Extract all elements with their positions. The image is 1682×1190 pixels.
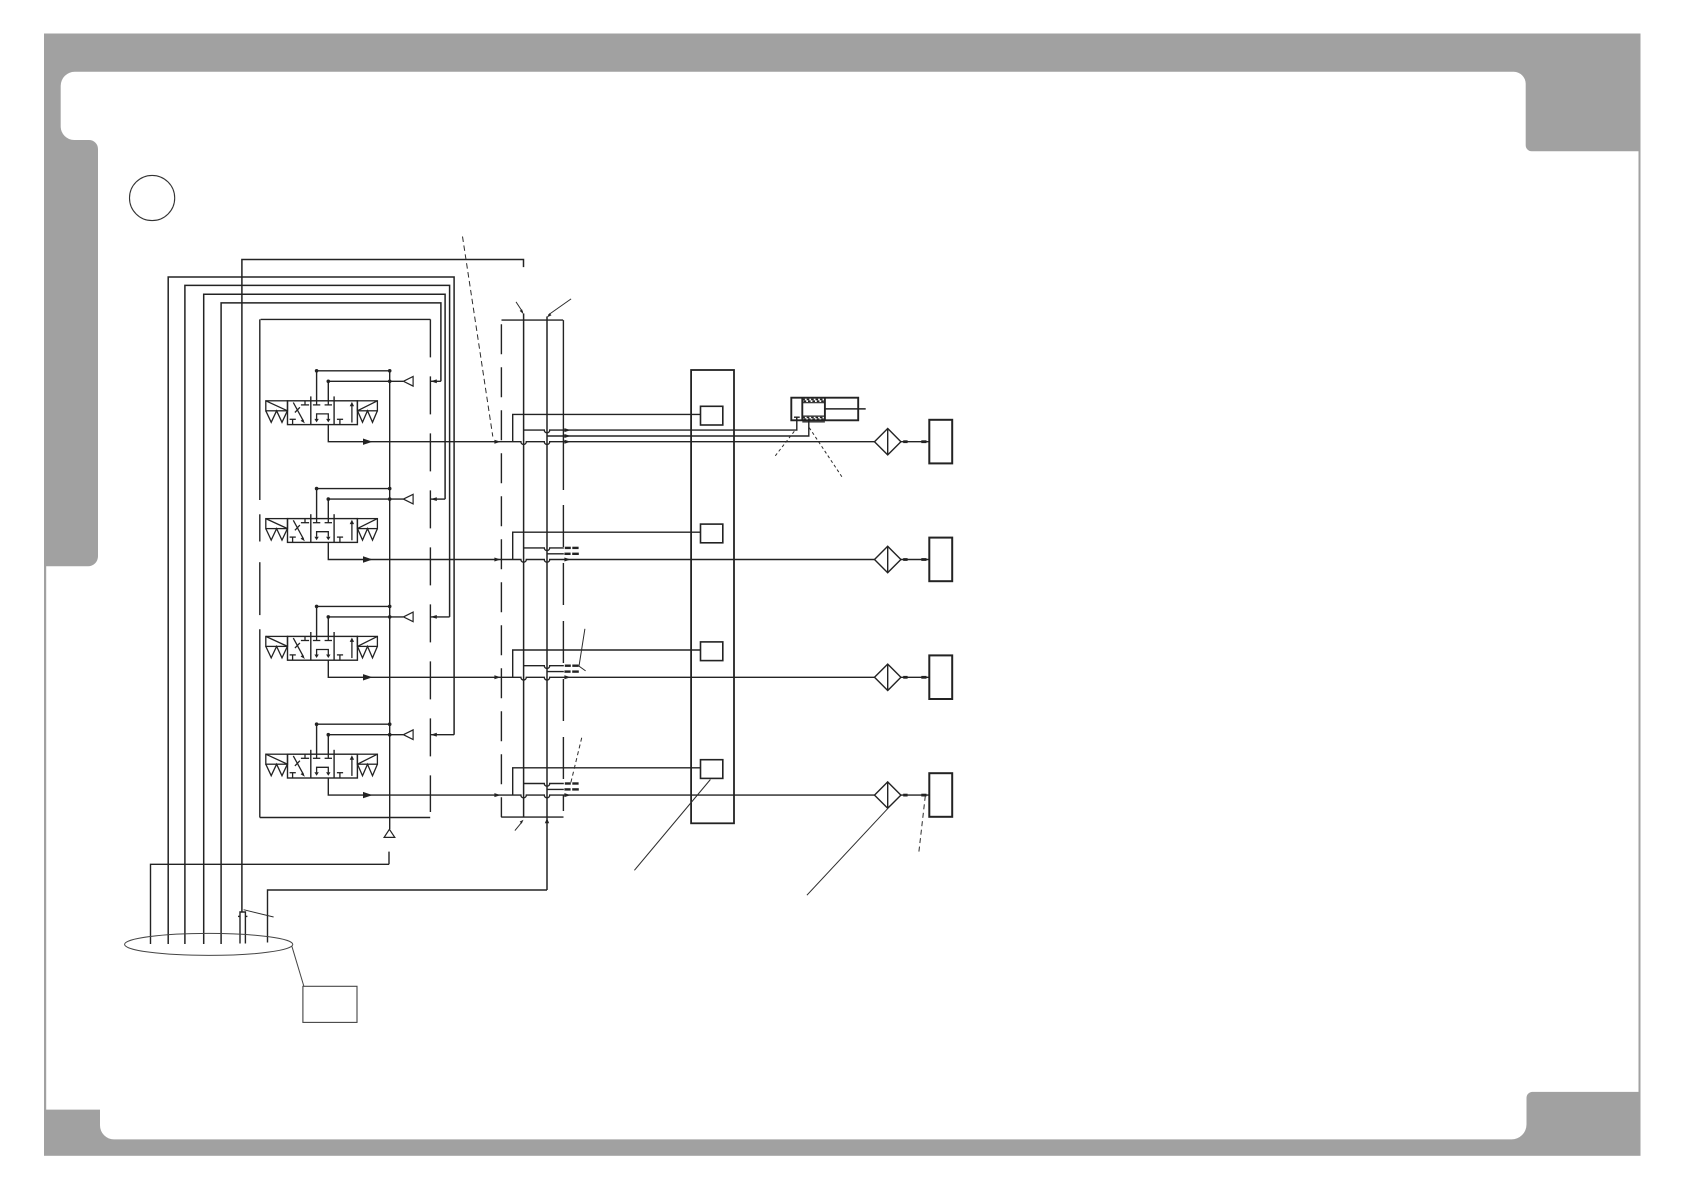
- common pilot exhaust line: [389, 371, 391, 830]
- sensing line to junction box port 1: [513, 414, 701, 441]
- cylinder supply line B (row 1): [547, 420, 809, 436]
- supply loop line P5: [221, 303, 441, 944]
- valve V1 position 1 symbols (throttled path + blocked ports): [290, 401, 310, 425]
- filter/nozzle F2 (diamond): [875, 546, 901, 572]
- solenoid valve V1 pilot line B: [328, 381, 403, 401]
- hose coupling marks: [903, 558, 926, 561]
- terminal box B3: [929, 655, 952, 699]
- pilot line B junction dots: [327, 380, 392, 384]
- exhaust drain stub: [388, 852, 390, 865]
- small flow arrow after manifold: [564, 675, 570, 679]
- solenoid valve V1 pilot line A: [317, 371, 390, 401]
- valve V2 position 1 symbols (throttled path + blocked ports): [290, 519, 310, 543]
- exhaust silencer E2 (left-pointing triangle): [403, 494, 413, 504]
- supply feed line from tank to bus 2: [268, 890, 548, 943]
- valve group enclosure right edge (dashed): [429, 319, 431, 812]
- small flow arrow after manifold: [564, 793, 570, 797]
- working line from valve V2 output: [328, 542, 874, 562]
- manifold right edge (dashed): [562, 320, 564, 490]
- small flow arrow on line A: [564, 428, 570, 432]
- valve group enclosure top edge: [261, 318, 431, 320]
- pilot line B junction dots: [327, 615, 392, 619]
- manifold bus line 1: [523, 314, 525, 818]
- pilot line A junction dots: [315, 722, 392, 726]
- index circle: [130, 175, 175, 220]
- hose coupling marks: [903, 676, 926, 679]
- piston rod: [825, 408, 866, 410]
- flow direction arrow: [363, 556, 373, 562]
- junction box (vertical): [691, 370, 734, 823]
- pilot line A junction dots: [315, 369, 392, 373]
- valve V1 body (3-position): [288, 396, 358, 424]
- small flow arrow before manifold: [494, 675, 500, 679]
- solenoid valve V3 pilot line B: [328, 617, 403, 637]
- valve V2 right pilot box: [357, 519, 377, 529]
- valve group enclosure bottom edge: [260, 817, 430, 819]
- pilot supply stub into valve group (arrow): [431, 734, 455, 736]
- valve V1 right pilot box: [357, 401, 377, 411]
- filter/nozzle F3 (diamond): [875, 664, 901, 690]
- solenoid valve V2 pilot line A: [317, 489, 390, 519]
- small flow arrow after manifold: [564, 558, 570, 562]
- valve V4 body (3-position): [288, 750, 358, 778]
- hose from tank to label box: [292, 946, 304, 986]
- cylinder port annotation leader A (dashed): [775, 430, 795, 456]
- pilot supply stub into valve group (arrow): [431, 616, 450, 618]
- manifold bottom edge: [501, 816, 563, 818]
- manifold inlet annotation leader: [515, 822, 522, 831]
- valve V1 position 2 symbols (center bridge with down arrows): [313, 401, 332, 419]
- supply riser arrow on bus 2: [545, 818, 549, 823]
- valve V1 right return spring: [358, 411, 378, 423]
- bus 1 annotation leader: [516, 302, 523, 312]
- supply loop line P2 (outermost): [168, 277, 454, 944]
- manifold bus line 2: [546, 317, 548, 891]
- valve V2 body (3-position): [288, 514, 358, 542]
- air inlet fitting on supply line P1: [238, 912, 247, 944]
- valve V3 right pilot box: [357, 636, 377, 646]
- valve V2 right return spring: [358, 529, 378, 541]
- valve V2 left pilot box: [266, 519, 288, 529]
- terminal box B1: [929, 420, 952, 464]
- supply loop line P3: [185, 285, 450, 944]
- hose coupling marks: [903, 794, 926, 797]
- solenoid valve V2 pilot line B: [328, 499, 403, 518]
- working line from valve V4 output: [328, 778, 874, 798]
- small flow arrow before manifold: [494, 793, 500, 797]
- pilot line B junction dots: [327, 497, 392, 501]
- cylinder supply stub A (row 4, continues off-sheet): [524, 784, 564, 787]
- valve V4 left pilot box: [266, 754, 288, 764]
- working line from valve V3 output: [328, 660, 874, 680]
- valve V4 position 1 symbols (throttled path + blocked ports): [290, 754, 310, 778]
- valve V2 position 3 symbols (through-flow arrow): [337, 523, 352, 542]
- cylinder port 1 (blocked tee): [794, 417, 800, 420]
- sensing line to junction box port 2: [513, 532, 701, 559]
- cylinder supply stub A (row 3, continues off-sheet): [524, 666, 564, 669]
- junction box port square 2: [701, 524, 723, 543]
- valve group enclosure left edge (broken): [259, 319, 261, 817]
- pilot line A junction dots: [315, 487, 392, 491]
- cylinder supply stub B (row 4, continues off-sheet): [547, 788, 564, 790]
- valve V3 right return spring: [358, 646, 378, 658]
- solenoid valve V4 pilot line A: [317, 724, 390, 754]
- supply loop line P1 (innermost/top): [242, 260, 524, 913]
- cylinder supply stub B (row 3, continues off-sheet): [547, 671, 564, 673]
- valve V2 left return spring: [266, 529, 288, 541]
- junction box port square 3: [701, 642, 723, 661]
- small flow arrow after manifold: [564, 440, 570, 444]
- exhaust silencer E1 (left-pointing triangle): [403, 377, 413, 387]
- small flow arrow before manifold: [494, 558, 500, 562]
- pilot line B junction dots: [327, 733, 392, 737]
- exhaust collector line: [151, 864, 390, 944]
- flow direction arrow: [363, 674, 373, 680]
- small flow arrow on line B: [564, 434, 570, 438]
- row-4 stub annotation leader (dashed): [571, 738, 582, 783]
- line from F4 to terminal box: [901, 794, 929, 796]
- sensing line to junction box port 4: [513, 768, 701, 795]
- flow direction arrow: [363, 439, 373, 445]
- valve V3 left pilot box: [266, 636, 288, 646]
- cylinder top seal band: [802, 399, 825, 402]
- valve V1 left return spring: [266, 411, 288, 423]
- filter F4 annotation leader: [807, 809, 888, 895]
- small flow arrow before manifold: [494, 440, 500, 444]
- line from F1 to terminal box: [901, 441, 929, 443]
- working line from valve V1 output: [328, 425, 874, 445]
- terminal box B4: [929, 773, 952, 817]
- line from F3 to terminal box: [901, 676, 929, 678]
- supply loop line P4: [204, 294, 445, 944]
- terminal box B2: [929, 538, 952, 582]
- bus 2 annotation leader: [548, 299, 571, 315]
- pilot supply stub into valve group (arrow): [431, 498, 446, 500]
- junction box port square 4: [701, 760, 723, 779]
- pilot line A junction dots: [315, 605, 392, 609]
- pilot supply stub into valve group (arrow): [431, 380, 441, 382]
- atmosphere exhaust triangle: [384, 829, 395, 837]
- cylinder supply stub B (row 2, continues off-sheet): [547, 553, 564, 555]
- filter/nozzle F4 (diamond): [875, 782, 901, 808]
- cylinder bottom seal band: [802, 416, 825, 422]
- cylinder port annotation leader B (dashed): [809, 428, 842, 478]
- exhaust silencer E3 (left-pointing triangle): [403, 612, 413, 622]
- valve V4 left return spring: [266, 764, 288, 776]
- valve V4 position 2 symbols (center bridge with down arrows): [313, 754, 332, 772]
- sensing line to junction box port 3: [513, 650, 701, 677]
- valve V3 position 3 symbols (through-flow arrow): [337, 641, 352, 660]
- filter/nozzle F1 (diamond): [875, 429, 901, 455]
- manifold annotation leader (dashed): [463, 237, 493, 437]
- manifold left edge (dashed): [500, 324, 502, 817]
- valve V3 position 2 symbols (center bridge with down arrows): [313, 636, 332, 654]
- valve V3 position 1 symbols (throttled path + blocked ports): [290, 636, 310, 660]
- solenoid valve V4 pilot line B: [328, 735, 403, 755]
- valve V4 right return spring: [358, 764, 378, 776]
- valve V1 position 3 symbols (through-flow arrow): [337, 406, 352, 425]
- cylinder supply stub A (row 2, continues off-sheet): [524, 548, 564, 551]
- exhaust silencer E4 (left-pointing triangle): [403, 730, 413, 740]
- air cylinder / actuator body: [791, 398, 858, 421]
- valve V3 left return spring: [266, 646, 288, 658]
- solenoid valve V3 pilot line A: [317, 606, 390, 636]
- valve V4 right pilot box: [357, 754, 377, 764]
- compressor label box: [303, 986, 357, 1022]
- flow direction arrow: [363, 792, 373, 798]
- air supply tank / blower (ellipse): [125, 933, 293, 955]
- terminal box B4 annotation leader (dashed): [919, 796, 926, 853]
- line from F2 to terminal box: [901, 559, 929, 561]
- valve V4 position 3 symbols (through-flow arrow): [337, 759, 352, 778]
- cylinder supply line A (row 1): [524, 417, 797, 433]
- row-3 stub annotation leader: [579, 629, 586, 671]
- junction box port square 1: [701, 406, 723, 425]
- valve V1 left pilot box: [266, 401, 288, 411]
- hose coupling marks: [903, 440, 926, 443]
- fitting annotation leader: [244, 910, 274, 917]
- valve V3 body (3-position): [288, 632, 358, 660]
- valve V2 position 2 symbols (center bridge with down arrows): [313, 519, 332, 537]
- junction box row-4 annotation leader: [634, 780, 710, 871]
- distribution manifold (dashed enclosure) top edge: [502, 319, 564, 321]
